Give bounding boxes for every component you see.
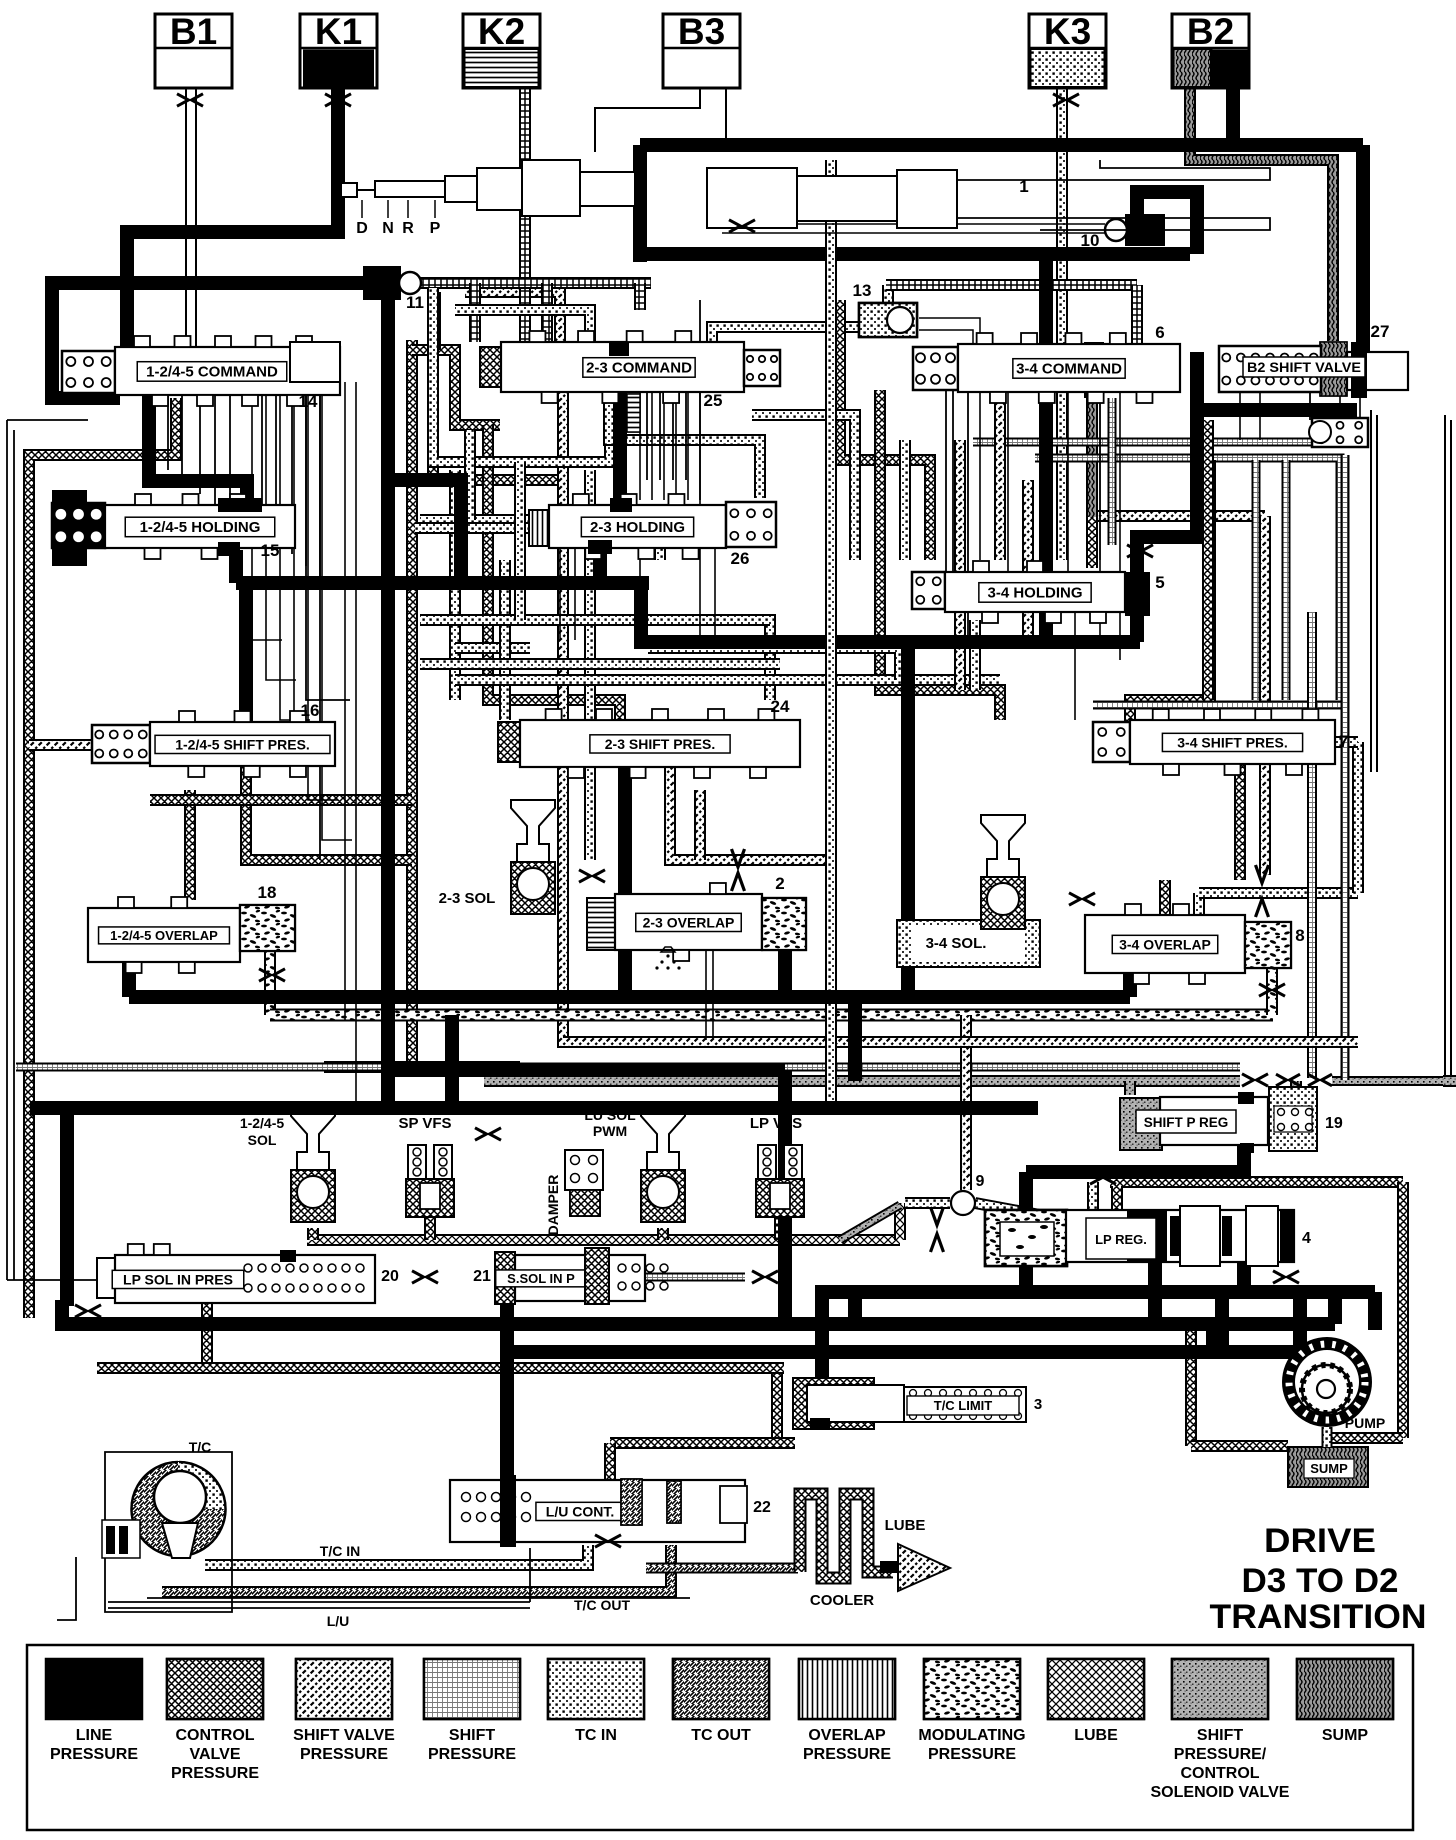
- svg-text:DAMPER: DAMPER: [545, 1175, 561, 1236]
- svg-text:1: 1: [1019, 177, 1028, 196]
- svg-text:K1: K1: [315, 11, 362, 52]
- svg-text:SHIFT: SHIFT: [449, 1727, 495, 1744]
- svg-text:PRESSURE: PRESSURE: [50, 1746, 138, 1763]
- svg-text:20: 20: [381, 1268, 399, 1285]
- svg-text:PRESSURE: PRESSURE: [300, 1746, 388, 1763]
- svg-text:SUMP: SUMP: [1310, 1461, 1348, 1476]
- svg-text:LU SOL: LU SOL: [584, 1107, 636, 1123]
- svg-text:24: 24: [771, 697, 790, 716]
- svg-text:2: 2: [775, 874, 784, 893]
- svg-text:21: 21: [473, 1268, 491, 1285]
- svg-text:10: 10: [1081, 231, 1100, 250]
- svg-text:8: 8: [1295, 926, 1304, 945]
- svg-text:1-2/4-5 OVERLAP: 1-2/4-5 OVERLAP: [110, 928, 218, 943]
- svg-text:3-4 HOLDING: 3-4 HOLDING: [987, 585, 1082, 602]
- svg-text:LUBE: LUBE: [1074, 1727, 1118, 1744]
- svg-text:SHIFT VALVE: SHIFT VALVE: [293, 1727, 395, 1744]
- svg-text:K2: K2: [478, 11, 525, 52]
- svg-text:N: N: [382, 220, 394, 237]
- svg-text:14: 14: [299, 392, 318, 411]
- svg-text:3-4 SOL.: 3-4 SOL.: [926, 935, 987, 952]
- svg-text:7: 7: [1339, 732, 1348, 751]
- svg-text:3-4 COMMAND: 3-4 COMMAND: [1016, 361, 1122, 378]
- svg-text:PUMP: PUMP: [1345, 1415, 1385, 1431]
- svg-text:PRESSURE/: PRESSURE/: [1174, 1746, 1267, 1763]
- svg-text:T/C OUT: T/C OUT: [574, 1597, 630, 1613]
- svg-text:LP REG.: LP REG.: [1095, 1232, 1147, 1247]
- svg-text:CONTROL: CONTROL: [175, 1727, 254, 1744]
- svg-text:VALVE: VALVE: [190, 1746, 241, 1763]
- svg-text:3: 3: [1034, 1396, 1042, 1413]
- svg-text:T/C IN: T/C IN: [320, 1543, 360, 1559]
- svg-text:K3: K3: [1044, 11, 1091, 52]
- svg-text:LP SOL IN PRES: LP SOL IN PRES: [123, 1271, 233, 1287]
- svg-text:CONTROL: CONTROL: [1180, 1765, 1259, 1782]
- svg-text:27: 27: [1371, 322, 1390, 341]
- svg-text:T/C LIMIT: T/C LIMIT: [934, 1398, 993, 1413]
- svg-text:SUMP: SUMP: [1322, 1727, 1369, 1744]
- svg-text:B2: B2: [1187, 11, 1234, 52]
- svg-text:SHIFT: SHIFT: [1197, 1727, 1243, 1744]
- svg-text:DRIVE: DRIVE: [1264, 1522, 1376, 1560]
- svg-text:B1: B1: [170, 11, 217, 52]
- svg-text:2-3 COMMAND: 2-3 COMMAND: [586, 360, 692, 377]
- svg-text:13: 13: [853, 281, 872, 300]
- svg-text:TRANSITION: TRANSITION: [1210, 1598, 1427, 1636]
- svg-text:MODULATING: MODULATING: [918, 1727, 1025, 1744]
- svg-text:OVERLAP: OVERLAP: [808, 1727, 886, 1744]
- svg-text:L/U: L/U: [327, 1613, 350, 1629]
- svg-text:P: P: [430, 220, 441, 237]
- svg-text:3-4 OVERLAP: 3-4 OVERLAP: [1119, 936, 1211, 952]
- svg-text:LINE: LINE: [76, 1727, 113, 1744]
- svg-text:1-2/4-5 SHIFT PRES.: 1-2/4-5 SHIFT PRES.: [175, 736, 310, 752]
- svg-text:B2 SHIFT VALVE: B2 SHIFT VALVE: [1247, 359, 1361, 375]
- svg-text:3-4 SHIFT PRES.: 3-4 SHIFT PRES.: [1177, 734, 1287, 750]
- svg-text:15: 15: [261, 541, 280, 560]
- svg-text:4: 4: [1302, 1230, 1311, 1247]
- svg-text:2-3 SOL: 2-3 SOL: [439, 890, 496, 907]
- svg-text:11: 11: [406, 293, 424, 312]
- svg-text:SOLENOID VALVE: SOLENOID VALVE: [1151, 1784, 1290, 1801]
- svg-text:SOL: SOL: [248, 1132, 277, 1148]
- svg-text:1-2/4-5: 1-2/4-5: [240, 1115, 285, 1131]
- svg-text:SHIFT P REG: SHIFT P REG: [1144, 1115, 1229, 1130]
- svg-text:PRESSURE: PRESSURE: [171, 1765, 259, 1782]
- svg-text:22: 22: [753, 1499, 771, 1516]
- svg-text:18: 18: [258, 883, 277, 902]
- svg-text:9: 9: [976, 1173, 985, 1190]
- svg-text:2-3 SHIFT PRES.: 2-3 SHIFT PRES.: [605, 736, 715, 752]
- svg-text:16: 16: [301, 701, 320, 720]
- svg-text:R: R: [402, 220, 414, 237]
- svg-text:19: 19: [1325, 1115, 1343, 1132]
- svg-text:26: 26: [731, 549, 750, 568]
- svg-text:TC OUT: TC OUT: [691, 1727, 751, 1744]
- svg-text:LP VFS: LP VFS: [750, 1115, 802, 1132]
- svg-text:1-2/4-5 HOLDING: 1-2/4-5 HOLDING: [140, 519, 261, 536]
- svg-text:LUBE: LUBE: [885, 1517, 926, 1534]
- svg-text:L/U CONT.: L/U CONT.: [546, 1503, 614, 1519]
- svg-text:PRESSURE: PRESSURE: [428, 1746, 516, 1763]
- svg-text:PRESSURE: PRESSURE: [803, 1746, 891, 1763]
- svg-text:PRESSURE: PRESSURE: [928, 1746, 1016, 1763]
- svg-text:25: 25: [704, 391, 723, 410]
- svg-text:TC IN: TC IN: [575, 1727, 617, 1744]
- svg-text:6: 6: [1155, 323, 1164, 342]
- svg-text:COOLER: COOLER: [810, 1592, 874, 1609]
- svg-text:D3 TO D2: D3 TO D2: [1242, 1562, 1399, 1600]
- svg-text:S.SOL IN P: S.SOL IN P: [507, 1271, 575, 1286]
- svg-text:2-3 HOLDING: 2-3 HOLDING: [590, 519, 685, 536]
- svg-text:5: 5: [1155, 573, 1164, 592]
- svg-text:B3: B3: [678, 11, 725, 52]
- svg-text:SP VFS: SP VFS: [398, 1115, 451, 1132]
- svg-text:PWM: PWM: [593, 1123, 627, 1139]
- svg-text:1-2/4-5 COMMAND: 1-2/4-5 COMMAND: [146, 364, 278, 381]
- svg-text:D: D: [356, 220, 368, 237]
- svg-text:2-3 OVERLAP: 2-3 OVERLAP: [643, 914, 735, 930]
